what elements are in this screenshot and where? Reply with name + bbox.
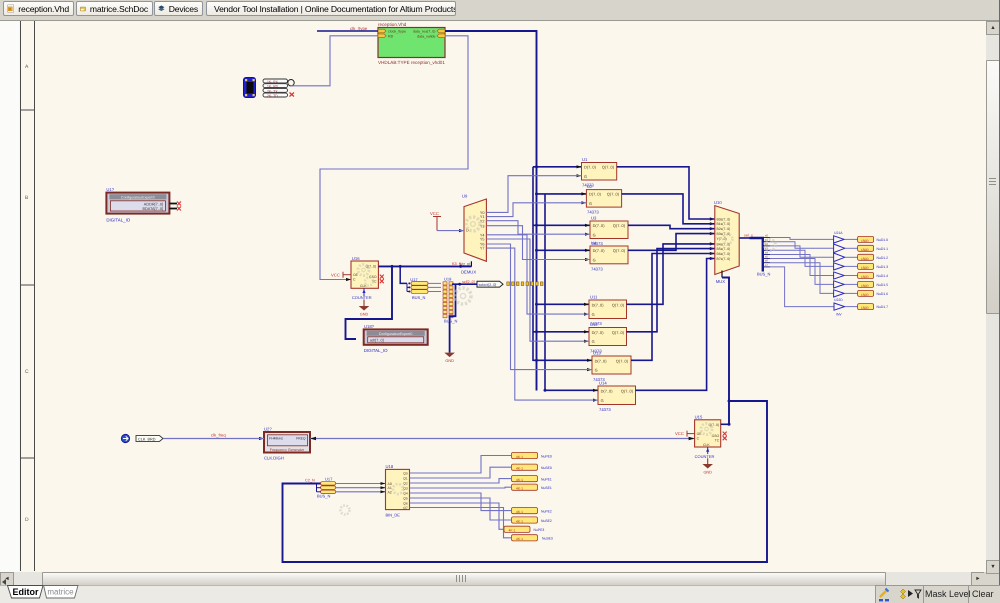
svg-text:U4: U4 xyxy=(591,241,597,246)
svg-text:COUNTER: COUNTER xyxy=(352,295,372,300)
svg-text:COUNTER: COUNTER xyxy=(695,454,715,459)
wire Y1 to U2.G xyxy=(486,203,586,217)
register U1 xyxy=(582,157,617,188)
bottom right panel xyxy=(875,585,1000,603)
G wires demux outputs to register G pins xyxy=(486,176,598,400)
svg-text:CLK: CLK xyxy=(703,443,710,447)
D branch to U12 xyxy=(533,331,589,333)
svg-text:Q0: Q0 xyxy=(403,471,408,475)
buffer U21D xyxy=(834,263,845,270)
svg-text:B5s(7..0): B5s(7..0) xyxy=(717,247,731,251)
svg-text:D(7..0): D(7..0) xyxy=(589,192,602,197)
margin tick 3 xyxy=(21,457,35,459)
margin tick 1 xyxy=(21,109,35,111)
svg-text:NuPE0: NuPE0 xyxy=(541,454,552,458)
pin arrowheads xyxy=(259,165,715,440)
svg-text:s7: s7 xyxy=(765,263,768,267)
svg-text:U2: U2 xyxy=(587,184,593,189)
bus trunk parallel line 3 xyxy=(544,194,546,391)
wire tap2 to buf3 xyxy=(770,246,834,257)
wire U3.Q to mux B2 xyxy=(628,225,715,228)
svg-text:Q(7..0): Q(7..0) xyxy=(612,330,625,335)
svg-text:Q(7..0): Q(7..0) xyxy=(616,358,629,363)
svg-text:G: G xyxy=(601,398,604,403)
svg-text:Q5: Q5 xyxy=(403,496,408,500)
U17b resistor pack xyxy=(305,477,336,499)
svg-text:sel[2..0]: sel[2..0] xyxy=(462,280,475,284)
svg-text:NuD1.5: NuD1.5 xyxy=(877,283,889,287)
LED resistor pills top right xyxy=(858,236,889,310)
bottom document tab row xyxy=(0,585,1000,603)
svg-text:150R: 150R xyxy=(861,284,869,288)
sheet border vertical line 2 xyxy=(34,21,36,571)
svg-text:U2?: U2? xyxy=(264,427,272,432)
buffer U22B xyxy=(834,281,845,288)
D branch to U14 xyxy=(545,389,598,391)
buffer U21C xyxy=(834,253,845,262)
svg-text:TC: TC xyxy=(715,438,720,442)
svg-text:D(7..0): D(7..0) xyxy=(595,358,608,363)
svg-text:D(7..0): D(7..0) xyxy=(584,165,597,170)
svg-text:reception.Vhd: reception.Vhd xyxy=(378,22,407,27)
svg-text:U15: U15 xyxy=(695,415,703,420)
svg-text:2K· TX: 2K· TX xyxy=(267,89,278,93)
wire tap1 to buf2 xyxy=(770,242,834,249)
svg-text:150R: 150R xyxy=(861,257,869,261)
port icon bottom left xyxy=(121,434,129,442)
svg-text:K3_K: K3_K xyxy=(452,262,462,266)
U19 select wire xyxy=(452,283,477,285)
svg-text:150R: 150R xyxy=(861,306,869,310)
wire Y4 to U11.G xyxy=(486,235,589,314)
svg-text:NuSE2: NuSE2 xyxy=(541,519,552,523)
svg-text:Q(7..0): Q(7..0) xyxy=(613,223,626,228)
svg-text:BUS_N: BUS_N xyxy=(444,319,457,324)
U16 right no-erc X 2 xyxy=(380,279,384,283)
svg-text:VHDLAB:TYPE reception_vhd01: VHDLAB:TYPE reception_vhd01 xyxy=(378,60,445,65)
svg-text:A2: A2 xyxy=(388,490,392,494)
D branch to U4 xyxy=(537,249,591,251)
svg-text:G: G xyxy=(593,258,596,263)
svg-text:4K·1: 4K·1 xyxy=(516,478,523,482)
svg-text:GND: GND xyxy=(703,471,712,475)
register U4 xyxy=(590,241,628,272)
svg-text:U12: U12 xyxy=(590,322,598,327)
buffer U22C xyxy=(834,290,845,297)
wire tap5 to buf6 xyxy=(770,259,834,285)
decoder output wires xyxy=(410,456,512,538)
buffer U21B xyxy=(834,244,845,253)
svg-text:CLK.DIGH: CLK.DIGH xyxy=(264,456,284,461)
svg-text:B7s(7..0): B7s(7..0) xyxy=(717,257,731,261)
sheet entry clock left xyxy=(378,29,386,33)
svg-text:4K·1: 4K·1 xyxy=(516,510,523,514)
wire U4.Q to mux B3 xyxy=(628,234,715,251)
svg-text:NuSE1: NuSE1 xyxy=(541,486,552,490)
svg-text:MUX: MUX xyxy=(716,279,726,284)
svg-text:Q(7..0): Q(7..0) xyxy=(612,302,625,307)
wire bottom loop xyxy=(283,401,768,562)
svg-text:VCC: VCC xyxy=(675,431,684,436)
mux S pin stub xyxy=(721,271,723,278)
svg-text:150R: 150R xyxy=(861,266,869,270)
wire tap6 to buf7 xyxy=(770,263,834,294)
sheet symbol reception (green) xyxy=(378,28,445,58)
vertical scrollbar xyxy=(986,21,999,572)
U16 GND power port xyxy=(363,300,365,307)
svg-text:NuD1.3: NuD1.3 xyxy=(877,265,889,269)
D branch to U1 xyxy=(533,166,582,168)
wire clk stub into sheet xyxy=(317,30,378,32)
svg-text:U16: U16 xyxy=(352,256,360,261)
counter U15 body xyxy=(695,420,721,447)
buffer U22D xyxy=(834,303,845,310)
svg-text:OE: OE xyxy=(353,273,359,277)
sheet entry data_valide right xyxy=(437,34,445,38)
svg-text:NuD1.1: NuD1.1 xyxy=(877,247,889,251)
svg-text:150R: 150R xyxy=(861,293,869,297)
demux U9 body xyxy=(464,199,486,261)
svg-text:NuD1.2: NuD1.2 xyxy=(877,256,889,260)
svg-text:NuSE0: NuSE0 xyxy=(541,466,552,470)
svg-text:D(7..0): D(7..0) xyxy=(592,302,605,307)
wire Q1 to R pill 2 xyxy=(410,467,512,478)
svg-text:U14: U14 xyxy=(599,381,607,386)
svg-text:Frequency Generator: Frequency Generator xyxy=(270,448,305,452)
svg-text:adr[7..0]: adr[7..0] xyxy=(370,339,384,343)
svg-text:U9: U9 xyxy=(462,194,468,199)
D branch to U2 xyxy=(537,193,587,195)
svg-text:NuD1.4: NuD1.4 xyxy=(877,274,889,278)
svg-text:clock_/type: clock_/type xyxy=(388,30,406,34)
U18 decoder xyxy=(386,464,410,518)
sheet entry RD left xyxy=(378,34,386,38)
wire tap3 to buf4 xyxy=(770,250,834,266)
svg-text:D(7..0): D(7..0) xyxy=(593,223,606,228)
svg-text:4K·1: 4K·1 xyxy=(509,529,516,533)
buffer U22A xyxy=(834,272,845,279)
wire U2.Q to mux B1 xyxy=(622,194,715,224)
no-erc X on stack xyxy=(290,93,295,97)
svg-text:U1?: U1? xyxy=(106,187,114,192)
svg-text:4K·1: 4K·1 xyxy=(516,537,523,541)
svg-text:ConfigurateurExpert©: ConfigurateurExpert© xyxy=(121,196,155,200)
VCC power port at demux xyxy=(433,217,441,231)
svg-text:Q2: Q2 xyxy=(403,481,408,485)
pins with no-erc xyxy=(169,203,177,205)
svg-text:U1: U1 xyxy=(582,157,588,162)
junction mux loop xyxy=(728,400,731,403)
svg-text:BDATA[7..0]: BDATA[7..0] xyxy=(142,207,163,211)
svg-text:4K·1: 4K·1 xyxy=(516,519,523,523)
svg-text:C: C xyxy=(25,369,29,375)
small tab scroll arrow bottom left xyxy=(2,579,6,585)
svg-text:data_valide: data_valide xyxy=(417,34,435,38)
bottom resistor pills xyxy=(504,452,553,541)
D branch to U11 xyxy=(537,303,590,305)
svg-text:v: v xyxy=(9,7,11,11)
wires U17 to U19 xyxy=(428,283,441,291)
svg-text:NuPE1: NuPE1 xyxy=(541,478,552,482)
sheet border vertical line 1 xyxy=(20,21,22,571)
svg-text:Q(7..0): Q(7..0) xyxy=(602,165,615,170)
svg-text:FH48kHz: FH48kHz xyxy=(269,437,283,441)
wire Q6 to R pill 7 xyxy=(410,503,504,529)
right edge strip xyxy=(999,0,1000,603)
register U2 xyxy=(586,184,621,215)
svg-text:U10: U10 xyxy=(714,200,722,205)
tap wires to buffers xyxy=(770,238,834,307)
wire VCC to demux D xyxy=(437,230,464,232)
register U11 xyxy=(589,295,627,327)
svg-text:NuD1.6: NuD1.6 xyxy=(877,292,889,296)
wire branch to U17 xyxy=(400,266,407,283)
wire mux S long run to bottom loop xyxy=(722,278,729,425)
svg-text:ADDR[7..0]: ADDR[7..0] xyxy=(144,202,163,206)
svg-text:D: D xyxy=(25,517,29,523)
buffer outputs to LED resistors xyxy=(845,239,858,306)
svg-text:74373: 74373 xyxy=(591,266,603,271)
svg-text:BUS_N: BUS_N xyxy=(757,272,770,277)
svg-text:NuPE2: NuPE2 xyxy=(541,510,552,514)
wire sheet data_valide to U16 C xyxy=(320,36,468,280)
svg-text:BUS_N: BUS_N xyxy=(317,494,330,499)
margin tick 2 xyxy=(21,284,35,286)
pin arrows on freq wire xyxy=(310,437,316,441)
svg-text:D(7..0): D(7..0) xyxy=(601,388,614,393)
CLK_BRD pointed label xyxy=(136,436,163,442)
svg-text:1K· RX: 1K· RX xyxy=(267,80,279,84)
wire Y3 to U4.G xyxy=(486,226,590,260)
svg-text:150R: 150R xyxy=(861,239,869,243)
svg-text:DIGITAL_IO: DIGITAL_IO xyxy=(106,218,130,223)
wire U13.Q to mux B6 xyxy=(631,254,715,361)
U15 right no-erc X 1 xyxy=(723,432,727,436)
svg-text:G: G xyxy=(592,312,595,317)
svg-text:Q1: Q1 xyxy=(403,476,408,480)
junction dots on trunk xyxy=(535,165,547,391)
svg-text:Editor: Editor xyxy=(13,587,39,597)
gear watermarks overlay xyxy=(341,217,776,515)
wire sheet data_rec to bus trunk xyxy=(445,31,537,391)
svg-text:150R: 150R xyxy=(861,248,869,252)
svg-text:INV: INV xyxy=(836,313,842,317)
svg-text:BIN_DE: BIN_DE xyxy=(386,513,401,518)
svg-text:clk_freq: clk_freq xyxy=(211,433,226,438)
ripper taps xyxy=(764,238,770,267)
svg-text:U22D: U22D xyxy=(834,298,843,302)
wire Q0 to R pill 1 xyxy=(410,456,512,474)
svg-text:select[2..0]: select[2..0] xyxy=(479,283,497,287)
svg-text:matrice: matrice xyxy=(47,588,74,597)
wire Q3 to R pill 4 xyxy=(410,486,512,489)
svg-text:Q(7..0): Q(7..0) xyxy=(607,192,620,197)
wire Y2 to U3.G xyxy=(486,221,590,235)
svg-text:Y(7..0): Y(7..0) xyxy=(717,237,727,241)
svg-text:OE: OE xyxy=(697,432,703,436)
svg-text:C2_N: C2_N xyxy=(305,479,315,483)
horizontal scrollbar xyxy=(0,572,984,585)
demux bottom pin stub xyxy=(470,261,472,266)
svg-text:GND: GND xyxy=(360,313,369,317)
svg-text:B2s(7..0): B2s(7..0) xyxy=(717,227,731,231)
svg-text:GSO: GSO xyxy=(712,434,720,438)
svg-text:Q(7..0): Q(7..0) xyxy=(621,388,634,393)
bus ripper bar xyxy=(750,238,763,272)
junction dots U16 net xyxy=(391,265,394,268)
svg-text:DEMUX: DEMUX xyxy=(461,270,476,275)
U16 right no-erc X 1 xyxy=(380,275,384,279)
svg-text:D(7..0): D(7..0) xyxy=(593,248,606,253)
svg-text:NuD1.0: NuD1.0 xyxy=(877,238,889,242)
wire Q7 to R pill 8 xyxy=(410,508,512,538)
corner xyxy=(984,572,1000,585)
svg-text:B1s(7..0): B1s(7..0) xyxy=(717,222,731,226)
svg-text:D(7..0): D(7..0) xyxy=(592,330,605,335)
wire Q5 to R pill 6 xyxy=(410,498,512,520)
svg-text:GND: GND xyxy=(445,359,454,363)
mux U10 body xyxy=(715,206,739,275)
svg-text:Q(7..0): Q(7..0) xyxy=(613,248,626,253)
svg-text:G: G xyxy=(584,174,587,179)
svg-text:NuD1.7: NuD1.7 xyxy=(877,305,889,309)
svg-text:G: G xyxy=(592,339,595,344)
register U14 xyxy=(598,381,636,413)
svg-text:U18?: U18? xyxy=(364,324,375,329)
svg-text:NuPE3: NuPE3 xyxy=(534,528,545,532)
svg-text:B0s(7..0): B0s(7..0) xyxy=(717,217,731,221)
svg-text:VCC: VCC xyxy=(430,211,439,216)
select net label pointed box xyxy=(477,281,503,287)
wire branch to ConfigurableExpert2 xyxy=(346,266,393,339)
svg-text:U13: U13 xyxy=(593,351,601,356)
svg-text:U18: U18 xyxy=(386,464,394,469)
wire U1.Q to mux B0 xyxy=(617,167,715,219)
wire Y0 to U1.G xyxy=(486,176,581,213)
bus trunk parallel line 2 xyxy=(532,167,534,361)
counter U16 body xyxy=(351,261,378,288)
svg-text:BUS_N: BUS_N xyxy=(412,295,425,300)
wire Y6 to U13.G xyxy=(486,244,592,370)
svg-text:U11: U11 xyxy=(590,295,598,300)
wire Y5 to U12.G xyxy=(486,239,589,341)
wire freq gen to U15.C xyxy=(310,438,695,440)
wire Q4 to R pill 5 xyxy=(410,493,512,511)
top toolbar xyxy=(0,0,1000,21)
wire Q2 to R pill 3 xyxy=(410,479,512,483)
svg-text:FREQ: FREQ xyxy=(296,437,306,441)
svg-text:U19: U19 xyxy=(444,277,452,282)
svg-text:U21A: U21A xyxy=(834,231,843,235)
svg-text:G: G xyxy=(589,201,592,206)
svg-text:G: G xyxy=(593,232,596,237)
wire U14.Q to mux B7 xyxy=(636,259,715,391)
left white gutter xyxy=(0,20,19,572)
svg-text:CLK_BRD: CLK_BRD xyxy=(138,437,156,441)
svg-text:2K· TD: 2K· TD xyxy=(267,94,278,98)
svg-text:Y7: Y7 xyxy=(480,247,485,251)
svg-text:U3: U3 xyxy=(591,216,597,221)
svg-text:Q4: Q4 xyxy=(403,491,408,495)
U16 VCC port xyxy=(343,272,351,278)
U17 link stubs xyxy=(406,283,408,291)
U16 CLK stem and arrow xyxy=(363,288,365,296)
sheet entry data_rec right xyxy=(437,29,445,33)
register U12 xyxy=(589,322,627,353)
wire tap4 to buf5 xyxy=(770,255,834,276)
wire tap0 to buf1 xyxy=(770,238,834,240)
bus entry marks row xyxy=(507,282,543,286)
wire U15.Q to vertical xyxy=(721,423,729,425)
svg-text:CLK: CLK xyxy=(360,284,367,288)
mux output wire to bus ripper xyxy=(739,237,749,239)
register U3 xyxy=(590,216,628,247)
register U13 xyxy=(592,351,631,382)
svg-text:VCC: VCC xyxy=(331,272,340,277)
svg-text:ConfigurateurExpert©: ConfigurateurExpert© xyxy=(379,332,413,336)
wire port to freq gen xyxy=(163,438,264,440)
wire loop on stack xyxy=(288,80,294,86)
svg-text:150R: 150R xyxy=(861,275,869,279)
svg-text:1K· RD: 1K· RD xyxy=(267,85,279,89)
wire U12.Q to mux B5 xyxy=(627,249,715,332)
wire stack to sheet RD xyxy=(291,36,379,86)
D branch to U3 xyxy=(533,224,590,226)
U15 VCC port xyxy=(687,431,695,437)
svg-text:74373: 74373 xyxy=(599,407,611,412)
wire Y7 to U14.G xyxy=(486,248,598,400)
buffer U21A xyxy=(834,236,845,243)
D branch to U13 xyxy=(533,359,592,361)
U15 right no-erc X 2 xyxy=(723,436,727,440)
svg-text:4K·1: 4K·1 xyxy=(516,455,523,459)
resistor stack RX/RD xyxy=(263,79,288,98)
svg-text:RD: RD xyxy=(388,34,394,38)
wire U11.Q to mux B4 xyxy=(627,244,715,304)
svg-text:DIGITAL_IO: DIGITAL_IO xyxy=(364,348,388,353)
svg-text:Y5: Y5 xyxy=(480,238,485,242)
U19 GND xyxy=(444,353,455,358)
svg-text:74373: 74373 xyxy=(587,210,599,215)
U15 CLK stem xyxy=(707,447,709,454)
U19 right bus xyxy=(450,284,456,353)
svg-text:Q6: Q6 xyxy=(403,501,408,505)
svg-text:data_rea(7..0): data_rea(7..0) xyxy=(413,30,436,34)
svg-text:G: G xyxy=(595,368,598,373)
svg-text:4K·1: 4K·1 xyxy=(516,487,523,491)
svg-text:U17: U17 xyxy=(325,477,333,482)
wires U17b to U18 decoder xyxy=(336,484,386,492)
U15 GND power port xyxy=(707,458,709,464)
DB9 connector xyxy=(244,78,256,98)
svg-text:4K·1: 4K·1 xyxy=(516,467,523,471)
wire tap7 to buf8 xyxy=(770,267,834,307)
svg-text:NuSE3: NuSE3 xyxy=(542,537,553,541)
svg-text:Q7: Q7 xyxy=(403,506,408,510)
wire U16.Q to demux S xyxy=(378,265,471,267)
svg-text:B6s(7..0): B6s(7..0) xyxy=(717,252,731,256)
